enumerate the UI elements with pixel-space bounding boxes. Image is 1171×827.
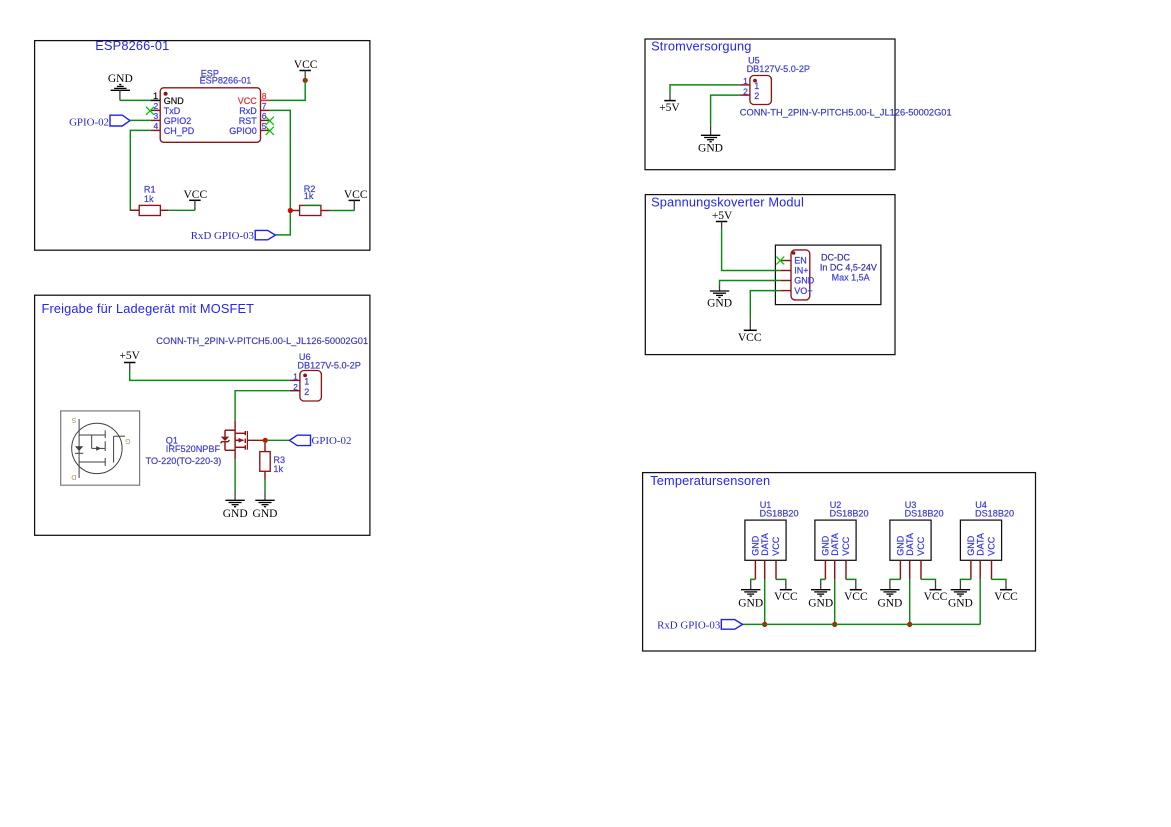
svg-text:CONN-TH_2PIN-V-PITCH5.00-L_JL1: CONN-TH_2PIN-V-PITCH5.00-L_JL126-50002G0… [740,107,952,117]
svg-text:TO-220(TO-220-3): TO-220(TO-220-3) [146,456,222,466]
wire U5 pin 2 to GND [711,95,740,125]
svg-text:Freigabe für Ladegerät mit MOS: Freigabe für Ladegerät mit MOSFET [42,301,255,316]
svg-text:1: 1 [743,76,748,86]
junction on VCC stem [303,78,308,83]
svg-text:+5V: +5V [119,350,140,362]
svg-text:R1: R1 [144,185,156,195]
svg-text:DATA: DATA [830,533,840,556]
svg-text:VCC: VCC [294,59,318,71]
wire VCC to ESP pin 8 [270,77,306,100]
resistor R1 [130,205,169,215]
power flag +5V (S3) [659,95,680,115]
svg-text:GPIO0: GPIO0 [229,126,257,136]
section frame ESP8266-01 [35,41,370,251]
svg-text:VCC: VCC [924,591,948,603]
power flag VCC (U4) [994,581,1018,603]
power flag VCC (R1) [183,189,207,211]
svg-text:RxD GPIO-03: RxD GPIO-03 [191,230,255,242]
svg-text:4: 4 [153,121,158,131]
svg-text:RxD: RxD [239,106,257,116]
wire module VO+ to VCC [750,291,780,319]
svg-text:DB127V-5.0-2P: DB127V-5.0-2P [297,360,360,370]
svg-text:ESP8266-01: ESP8266-01 [200,76,252,86]
svg-text:TxD: TxD [164,106,181,116]
wire U5 pin 1 to +5V [670,85,740,95]
wire module GND pin to GND [720,281,781,286]
svg-text:CONN-TH_2PIN-V-PITCH5.00-L_JL1: CONN-TH_2PIN-V-PITCH5.00-L_JL126-50002G0… [156,336,368,346]
wire +5V to IN+ [722,229,781,271]
wire U2 VCC pin to VCC [846,579,856,581]
pin 2 TxD of ESP [151,101,181,116]
net flag RxD GPIO-03 (S5) [657,620,742,632]
connector U5 DB127V-5.0-2P body [750,76,772,105]
svg-text:IN+: IN+ [794,266,808,276]
svg-text:GND: GND [794,276,815,286]
svg-text:VO+: VO+ [794,286,812,296]
svg-text:Stromversorgung: Stromversorgung [651,39,751,54]
ground symbol GND (U2) [808,581,833,609]
pin GND of U4 [966,535,976,579]
svg-text:DB127V-5.0-2P: DB127V-5.0-2P [747,64,810,74]
svg-text:GND: GND [707,297,732,309]
ground symbol GND (U4) [948,581,973,609]
svg-text:DS18B20: DS18B20 [830,508,869,518]
svg-text:GND: GND [253,508,278,520]
pin 5 GPIO0 of ESP [229,121,269,136]
no-connect X on pin 2 [146,107,154,115]
wire U4 GND pin to ground [960,579,971,581]
svg-text:VCC: VCC [916,536,926,556]
svg-text:GND: GND [738,597,763,609]
data bus wire [743,623,981,625]
net flag RxD GPIO-03 [191,230,276,242]
power flag VCC (U2) [844,581,868,603]
dc-dc module U? body [791,250,810,300]
no-connect X on EN [776,257,784,265]
svg-text:DS18B20: DS18B20 [905,508,944,518]
power flag VCC (R2) [344,189,368,211]
svg-text:EN: EN [794,256,807,266]
power flag VCC (S4) [738,318,762,344]
svg-text:GPIO2: GPIO2 [164,116,192,126]
ic ESP U? ESP8266-01 body [160,88,260,143]
svg-text:D: D [71,473,76,480]
svg-text:DATA: DATA [975,533,985,556]
svg-text:1: 1 [304,377,309,387]
svg-text:1: 1 [754,81,759,91]
footprint letters S G D [71,416,130,480]
section frame Temperatursensoren [643,473,1036,651]
svg-text:6: 6 [262,111,267,121]
svg-text:DS18B20: DS18B20 [975,508,1014,518]
svg-text:1: 1 [153,91,158,101]
section frame Stromversorgung [645,39,895,170]
pin GND of U3 [896,535,906,579]
svg-text:2: 2 [754,91,759,101]
svg-text:GND: GND [877,597,902,609]
svg-text:7: 7 [262,101,267,111]
resistor R2 [290,205,329,215]
svg-text:GND: GND [223,508,248,520]
svg-text:DATA: DATA [760,533,770,556]
power flag +5V (S2) [119,350,140,371]
ground symbol GND (S4) [707,286,732,310]
svg-text:Spannungskoverter Modul: Spannungskoverter Modul [651,194,804,209]
section frame Freigabe fuer Ladegeraet mit MOSFET [35,295,370,535]
pin DATA of U2 [830,533,840,579]
sensor U4 DS18B20 body [960,520,1001,560]
wire GPIO-02 to ESP pin 3 [130,119,151,121]
net flag GPIO-02 (S2) [290,435,352,447]
ground symbol GND (U1) [738,581,763,609]
section frame Spannungskoverter Modul [645,195,895,355]
wire U1 DATA pin to bus [764,579,766,624]
pin 3 GPIO2 of ESP [151,111,192,126]
svg-text:GND: GND [948,597,973,609]
ground symbol GND (under R3) [253,491,278,520]
svg-text:1k: 1k [144,194,154,204]
no-connect X on pin 6 [266,117,274,125]
svg-text:GND: GND [108,73,133,85]
ground symbol GND (S3) [698,125,723,154]
footprint preview box (gray) [61,411,140,485]
pin 1 of U5 [740,76,760,91]
power flag VCC (top) [294,59,318,77]
wire U4 DATA pin to bus [979,579,981,624]
pin EN of module [780,256,807,266]
svg-text:In DC 4,5-24V: In DC 4,5-24V [820,262,877,272]
power flag VCC (U1) [774,581,798,603]
wire Q1 source to GND [234,460,236,491]
wire overlay on R2 top edge [305,204,321,206]
pin 7 RxD of ESP [239,101,269,116]
wire U1 VCC pin to VCC [776,579,786,581]
svg-text:VCC: VCC [238,96,258,106]
wire R3 to GND [264,480,266,491]
svg-text:GND: GND [164,96,185,106]
wire U2 DATA pin to bus [834,579,836,624]
junction U3 DATA on bus [907,622,912,627]
pin 4 CH_PD of ESP [151,121,195,136]
svg-text:2: 2 [304,387,309,397]
ground symbol GND (under Q1) [223,491,248,520]
svg-text:2: 2 [293,382,298,392]
junction U2 DATA on bus [832,622,837,627]
svg-text:VCC: VCC [774,591,798,603]
svg-text:CH_PD: CH_PD [164,126,195,136]
pin 8 VCC of ESP [238,91,270,106]
pin VO+ of module [780,286,812,296]
wire U3 VCC pin to VCC [921,579,936,581]
svg-text:VCC: VCC [771,536,781,556]
pin DATA of U4 [975,533,985,579]
svg-text:2: 2 [153,101,158,111]
svg-text:Max 1,5A: Max 1,5A [832,272,870,282]
dc-dc module outer box [775,245,881,305]
svg-text:2: 2 [743,86,748,96]
svg-text:RxD GPIO-03: RxD GPIO-03 [657,620,721,632]
svg-text:1k: 1k [273,464,283,474]
junction at Q1 gate / R3 [263,438,268,443]
svg-text:Temperatursensoren: Temperatursensoren [650,473,770,488]
svg-text:GPIO-02: GPIO-02 [312,435,352,447]
pin VCC of U1 [771,536,781,579]
wire +5V to U6 pin 1 [130,371,290,380]
pin DATA of U1 [760,533,770,579]
wire ESP pin 4 to R1 [130,130,151,210]
svg-text:+5V: +5V [659,102,680,114]
no-connect X on pin 5 [266,127,274,135]
svg-text:VCC: VCC [994,591,1018,603]
pin DATA of U3 [905,533,915,579]
wire U6 pin 2 to Q1 drain [235,391,290,421]
wire U4 VCC pin to VCC [992,579,1007,581]
svg-text:VCC: VCC [844,591,868,603]
svg-text:S: S [71,416,76,423]
pin VCC of U3 [916,536,926,579]
svg-text:VCC: VCC [738,332,762,344]
ground symbol GND (upper left) [108,73,133,100]
svg-text:DATA: DATA [905,533,915,556]
sensor U1 DS18B20 body [745,520,786,560]
pin GND of module [780,276,815,286]
svg-text:1k: 1k [304,191,314,201]
svg-text:DC-DC: DC-DC [821,252,850,262]
pin 1 of U6 [290,372,310,387]
sensor U2 DS18B20 body [815,520,856,560]
wire R2 to VCC [329,210,354,212]
wire U3 DATA pin to bus [909,579,911,624]
footprint preview MOSFET drawing [72,419,125,478]
wire GND to ESP pin 1 [120,99,151,101]
svg-text:GPIO-02: GPIO-02 [69,116,109,128]
wire U1 GND pin to ground [751,579,756,581]
power flag +5V (S4) [712,210,733,229]
svg-text:DS18B20: DS18B20 [760,508,799,518]
pin VCC of U4 [987,536,997,579]
pin 1 GND of ESP [151,91,185,106]
power flag VCC (U3) [924,581,948,603]
wire ESP pin 7 to R2 / RxD flag [270,110,291,234]
svg-text:5: 5 [262,121,267,131]
pin IN+ of module [780,266,808,276]
svg-text:VCC: VCC [344,189,368,201]
svg-text:GND: GND [698,142,723,154]
pin 2 of U6 [290,382,310,397]
pin GND of U2 [821,535,831,579]
wire U2 GND pin to ground [821,579,826,581]
svg-text:+5V: +5V [712,210,733,222]
wire R1 to VCC [169,209,195,211]
svg-text:G: G [125,437,130,444]
svg-text:VCC: VCC [841,536,851,556]
pin 2 of U5 [740,86,760,101]
pin 6 RST of ESP [239,111,270,126]
wire junction to GPIO-02 flag [265,439,289,441]
svg-text:8: 8 [262,91,267,101]
wire U3 GND pin to ground [890,579,901,581]
junction at R2 left [288,208,293,213]
svg-text:ESP8266-01: ESP8266-01 [95,38,169,53]
svg-text:VCC: VCC [183,189,207,201]
net flag GPIO-02 [69,115,130,128]
ground symbol GND (U3) [877,581,902,609]
svg-text:3: 3 [153,111,158,121]
transistor Q1 IRF520NPBF [221,420,266,459]
svg-text:RST: RST [239,116,258,126]
svg-text:GND: GND [808,597,833,609]
pin VCC of U2 [841,536,851,579]
sensor U3 DS18B20 body [890,520,931,560]
svg-text:VCC: VCC [987,536,997,556]
junction U1 DATA on bus [762,622,767,627]
svg-text:IRF520NPBF: IRF520NPBF [166,444,221,454]
connector U6 DB127V-5.0-2P body [300,371,322,402]
svg-text:1: 1 [293,372,298,382]
pin GND of U1 [751,535,761,579]
resistor R3 [260,443,270,480]
